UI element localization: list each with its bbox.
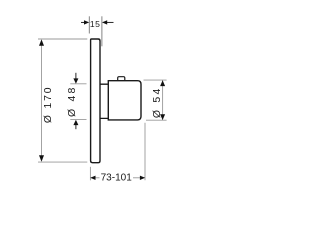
safety stop button on knob top: [118, 77, 125, 81]
hub sleeve (between plate and knob): [100, 84, 108, 118]
dim 73-101: dimension line right segment: [133, 177, 145, 179]
knob (thermostat handle, side view): [108, 81, 141, 120]
dim 15: right extension line: [101, 16, 103, 46]
dim Ø170: top arrowhead: [39, 39, 44, 45]
dim Ø54: top arrowhead (pointing up): [160, 80, 165, 86]
dim 15: left extension line: [88, 16, 90, 33]
dim 73-101: left arrowhead (pointing left): [90, 176, 95, 180]
dim 73-101: left extension line: [89, 167, 91, 181]
dim Ø48: bottom arrow (tail + head pointing up): [75, 124, 77, 129]
dim 73-101: dimension line left segment: [91, 177, 100, 179]
dim Ø170: bottom extension line: [38, 161, 87, 163]
svg-text:15: 15: [90, 19, 101, 29]
dim Ø54: bottom extension line: [146, 119, 167, 121]
dim Ø170: dimension line: [41, 45, 43, 156]
dim Ø54: top extension line: [144, 79, 167, 81]
dim Ø54: bottom arrowhead (pointing down): [160, 114, 165, 120]
svg-text:Ø 48: Ø 48: [66, 85, 78, 117]
svg-text:Ø 54: Ø 54: [151, 87, 163, 119]
dim Ø54: dimension line: [162, 80, 164, 120]
dim 15: left arrow (tail + head pointing right): [81, 21, 87, 23]
dim Ø170: bottom arrowhead: [39, 155, 44, 161]
wall plate (escutcheon, side view): [91, 39, 100, 163]
dim Ø48: top arrow (tail + head pointing down): [75, 73, 77, 79]
dim 73-101: right extension line: [144, 123, 146, 181]
dim Ø170: top extension line: [38, 38, 87, 40]
dim Ø48: top extension line: [70, 83, 86, 85]
svg-text:73-101: 73-101: [101, 172, 133, 183]
dim 73-101: right arrowhead (pointing right): [140, 176, 145, 180]
dim 15: right arrow (head pointing left + tail): [104, 21, 114, 23]
svg-text:Ø 170: Ø 170: [43, 86, 54, 124]
dim Ø48: bottom extension line: [70, 119, 86, 121]
